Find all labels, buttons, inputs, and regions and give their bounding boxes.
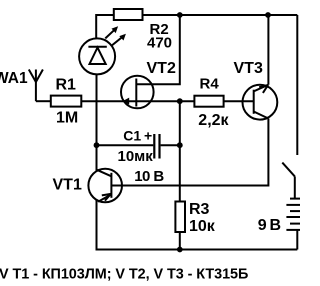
resistor R1 bbox=[51, 96, 82, 107]
node bottom rail / R3 bbox=[177, 247, 183, 253]
svg-text:VT1: VT1 bbox=[53, 176, 82, 193]
svg-text:1M: 1M bbox=[56, 109, 78, 126]
svg-text:9 В: 9 В bbox=[258, 217, 281, 234]
node VT2 base / R4 / R3 bbox=[177, 98, 183, 104]
wire antenna to R1 bbox=[36, 100, 51, 102]
wire R3 to bottom rail bbox=[179, 232, 181, 250]
node top rail / VT3 emitter bbox=[265, 12, 271, 18]
wire VT2 base down to R3 bbox=[179, 101, 181, 201]
svg-text:470: 470 bbox=[147, 35, 172, 52]
svg-text:10к: 10к bbox=[189, 218, 216, 235]
wire R4 to VT3 bbox=[224, 100, 254, 102]
svg-text:C1: C1 bbox=[123, 128, 141, 144]
svg-text:R1: R1 bbox=[56, 77, 77, 94]
antenna WA1 bbox=[29, 70, 43, 102]
svg-text:2,2к: 2,2к bbox=[198, 112, 229, 129]
battery GB1 9V bbox=[286, 199, 300, 250]
svg-text:V T1 - КП103ЛМ; V T2, V T3 - К: V T1 - КП103ЛМ; V T2, V T3 - КТ315Б bbox=[0, 266, 248, 282]
wire VT1 emitter to bottom rail bbox=[97, 200, 298, 249]
resistor R3 bbox=[175, 202, 185, 233]
switch SA1 bbox=[282, 163, 295, 199]
resistor R2 bbox=[114, 9, 143, 20]
wire LED to VT1 bbox=[96, 75, 98, 171]
transistor VT2 bbox=[121, 15, 180, 108]
wire R1 to R4 through VT2 bbox=[81, 100, 194, 102]
resistor R4 bbox=[194, 96, 223, 107]
node C1 right bbox=[177, 142, 183, 148]
svg-text:WA1: WA1 bbox=[0, 70, 28, 87]
wire VT1 base to VT3 collector bbox=[122, 119, 268, 186]
svg-text:R4: R4 bbox=[200, 76, 220, 93]
transistor VT3 bbox=[243, 15, 278, 120]
wire right vertical to switch bbox=[296, 15, 298, 155]
svg-text:R3: R3 bbox=[189, 201, 210, 218]
svg-text:10 В: 10 В bbox=[134, 168, 164, 185]
wire C1 right bbox=[161, 144, 180, 146]
wire top rail bbox=[96, 15, 297, 39]
node top rail / VT2 collector bbox=[177, 12, 183, 18]
LED HL1 bbox=[79, 26, 126, 74]
transistor VT1 bbox=[88, 169, 122, 203]
svg-text:VT2: VT2 bbox=[147, 60, 176, 77]
svg-text:VT3: VT3 bbox=[234, 60, 263, 77]
svg-text:+: + bbox=[144, 128, 152, 144]
node C1 left bbox=[94, 142, 100, 148]
wire C1 left bbox=[97, 144, 154, 146]
capacitor C1 bbox=[154, 134, 159, 159]
svg-text:10мк: 10мк bbox=[118, 148, 154, 165]
